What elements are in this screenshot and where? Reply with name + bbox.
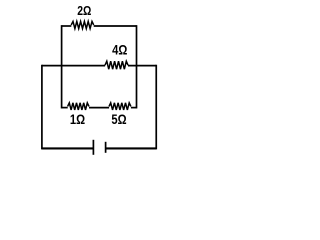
wire top branch right segment	[94, 25, 137, 27]
resistor R3 1ohm zigzag	[68, 103, 89, 110]
svg-text:5Ω: 5Ω	[111, 112, 126, 127]
wire outer left vertical	[41, 65, 43, 150]
wire inner left vertical	[61, 25, 63, 108]
wire bottom branch right segment	[131, 107, 137, 109]
wire middle branch right segment	[128, 65, 156, 67]
svg-text:1Ω: 1Ω	[70, 112, 85, 127]
wire inner right vertical	[136, 25, 138, 108]
resistor R2 4ohm zigzag	[105, 61, 128, 69]
wire bottom left segment	[42, 147, 94, 149]
wire middle branch left segment	[42, 65, 105, 67]
resistor R4 5ohm zigzag	[109, 103, 131, 110]
wire outer right vertical	[155, 65, 157, 150]
wire bottom right segment	[106, 147, 157, 149]
svg-text:2Ω: 2Ω	[77, 4, 91, 18]
wire bottom branch middle segment	[89, 107, 109, 109]
wire top branch left segment	[62, 25, 72, 27]
battery B1 long plate	[92, 140, 94, 155]
svg-text:4Ω: 4Ω	[112, 42, 127, 57]
resistor R1 2ohm zigzag	[71, 21, 94, 28]
battery B1 short plate	[105, 142, 107, 153]
wire bottom branch left segment	[62, 107, 68, 109]
